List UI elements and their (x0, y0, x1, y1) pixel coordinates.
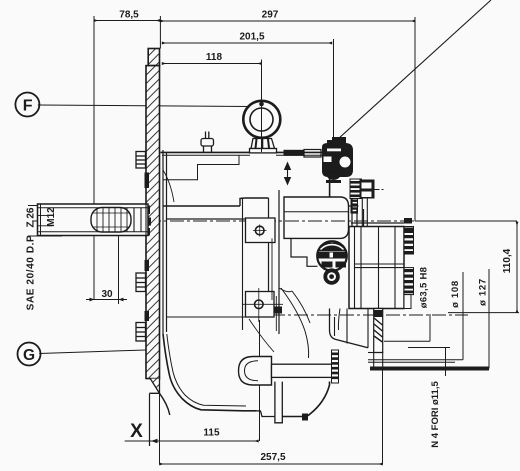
dimension 118 (162, 60, 262, 151)
shaft seal housing lines (134, 204, 146, 236)
bell housing curve (160, 393, 170, 415)
splined shaft end Z26 (91, 208, 131, 233)
rear housing wall (278, 190, 280, 334)
svg-text:297: 297 (262, 10, 279, 21)
drain tube (272, 364, 333, 377)
clutch bore top line (164, 205, 241, 207)
output flange section strip (368, 309, 383, 353)
dimension ø 108 (368, 272, 463, 360)
flange stud bolt lower (136, 311, 149, 341)
output bore line (167, 316, 246, 318)
shaft seal dark marks (144, 206, 150, 215)
dimension 115 (125, 320, 260, 443)
output centerline (248, 314, 468, 316)
leader F to eyebolt (38, 105, 249, 107)
sump corner mark (302, 414, 308, 421)
dimension 201,5 (162, 39, 334, 143)
extent ticks for spline label (28, 206, 62, 237)
svg-text:X: X (130, 421, 143, 442)
drain tube centerline (266, 370, 340, 372)
eyebolt axis / 118 extension (261, 99, 263, 152)
M12 thread marks in shaft end (38, 216, 52, 226)
dimension N 4 FORI ø11,5 (408, 348, 450, 377)
clutch housing face (268, 198, 270, 291)
svg-text:Z 26: Z 26 (26, 207, 37, 227)
lifting eyebolt (243, 101, 280, 138)
drum step down (291, 238, 318, 266)
rear housing right face (349, 198, 365, 232)
leader G to flange (39, 350, 146, 354)
svg-text:ø 127: ø 127 (478, 278, 489, 306)
breather plug (201, 132, 214, 153)
upper bearing cap (246, 218, 276, 243)
svg-text:ø63,5 H8: ø63,5 H8 (419, 267, 430, 308)
flange rear face extension to dims (159, 16, 161, 49)
dimension 110,4 (448, 222, 519, 313)
svg-text:F: F (23, 98, 33, 115)
input shaft centerline (32, 220, 415, 222)
control valve lever arm (284, 150, 322, 158)
bearing boss step (240, 198, 269, 206)
svg-text:78,5: 78,5 (119, 10, 139, 21)
oil filler cap TD (317, 241, 347, 285)
housing inner step contour (163, 155, 239, 202)
gear housing outline (161, 148, 331, 197)
svg-text:N 4 FORI ø11,5: N 4 FORI ø11,5 (430, 381, 441, 448)
svg-text:G: G (23, 347, 35, 364)
flange rib serrations upper (404, 227, 414, 255)
ribbed riser to lower flange (332, 350, 339, 383)
dimension 30 (86, 233, 127, 304)
balloon G (18, 343, 41, 366)
diagonal pointer to control valve (338, 0, 491, 139)
lower output housing wedge (330, 309, 369, 348)
clutch drum (rounded) (284, 197, 349, 238)
lever travel arrow (284, 162, 291, 186)
dimension ø63,5 H8 (384, 314, 430, 341)
svg-text:ø 108: ø 108 (450, 280, 461, 308)
ribbed stud strip (351, 199, 358, 214)
drain boss (239, 357, 272, 386)
input shaft (38, 204, 149, 236)
sump bottom outline (163, 334, 330, 423)
dimension 297 (161, 17, 416, 221)
flange rib serrations lower (404, 268, 414, 309)
housing front plate (163, 150, 167, 334)
centerline extension to 110,4 (415, 220, 517, 222)
svg-text:115: 115 (203, 428, 220, 439)
flange stud bolt middle (136, 260, 149, 292)
control valve body (322, 137, 353, 183)
trolling valve ribbed fitting (350, 179, 385, 199)
dimension 78,5 (94, 16, 160, 300)
balloon F (15, 93, 39, 117)
lower bearing cap (243, 288, 283, 322)
svg-text:M12: M12 (46, 207, 57, 227)
output coupling flange block (349, 218, 412, 309)
valve bracket legs (362, 199, 367, 227)
flange bottom bar (370, 367, 489, 371)
svg-text:SAE 20/40 D.P: SAE 20/40 D.P (26, 235, 37, 311)
svg-text:110,4: 110,4 (502, 248, 513, 273)
svg-text:201,5: 201,5 (239, 32, 264, 43)
leader dot on eyebolt (259, 102, 264, 107)
svg-text:257,5: 257,5 (260, 452, 285, 463)
mounting flange (hatched section) (145, 49, 159, 394)
clutch pack top line (167, 218, 269, 220)
flange stud bolt upper (136, 152, 149, 189)
eyebolt collar (250, 139, 277, 153)
svg-text:30: 30 (101, 289, 113, 300)
dimension ø 127 (368, 269, 489, 369)
housing front wall (242, 198, 244, 330)
casting curves mid body (249, 288, 310, 358)
svg-text:118: 118 (206, 52, 223, 63)
dimension 257,5 (160, 367, 383, 465)
